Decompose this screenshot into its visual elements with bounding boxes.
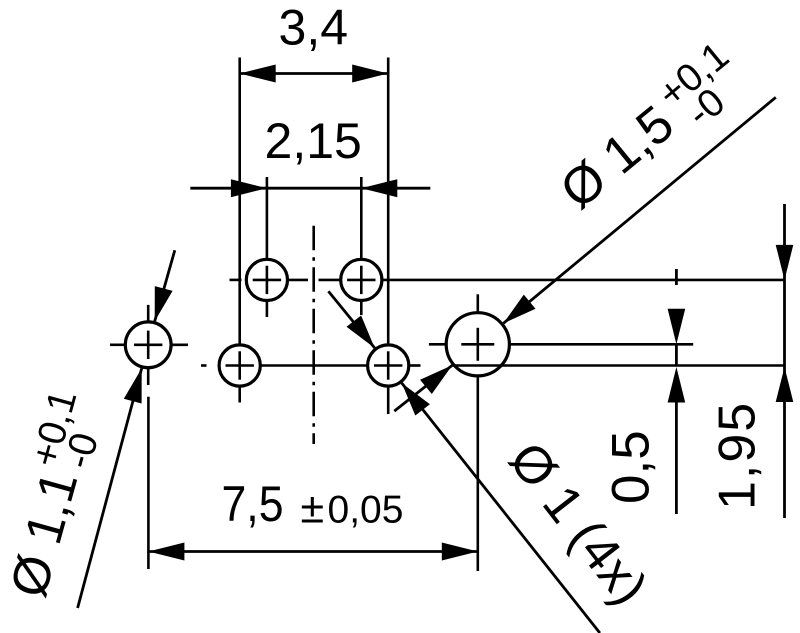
svg-text:3,4: 3,4 bbox=[279, 0, 349, 56]
svg-text:1,95: 1,95 bbox=[709, 401, 767, 510]
svg-text:0,05: 0,05 bbox=[328, 489, 404, 532]
svg-text:7,5: 7,5 bbox=[222, 476, 284, 532]
svg-text:±: ± bbox=[301, 485, 325, 533]
svg-text:0,5: 0,5 bbox=[602, 430, 661, 504]
svg-text:2,15: 2,15 bbox=[265, 113, 362, 169]
